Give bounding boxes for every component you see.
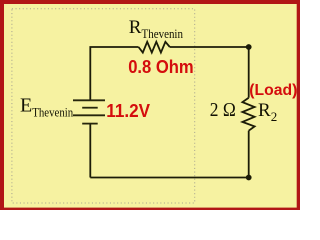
wire: bottom rail [90, 177, 248, 179]
resistor R_Thevenin [139, 42, 170, 53]
node: bottom-right junction [246, 175, 252, 181]
battery E_Thevenin [73, 100, 105, 123]
node: top-right junction [246, 44, 252, 50]
resistor R2 (load) [242, 98, 254, 131]
svg-text:11.2V: 11.2V [106, 101, 150, 121]
svg-text:0.8 Ohm: 0.8 Ohm [128, 57, 194, 77]
svg-text:2 Ω: 2 Ω [210, 99, 236, 121]
svg-text:(Load): (Load) [249, 82, 297, 99]
wire: resistor R2 down to bottom-right node [248, 131, 250, 178]
wire: battery top to resistor R_Thevenin left lead [90, 47, 138, 100]
wire: top-right node down to resistor R2 [248, 47, 250, 98]
wire: bottom rail up to battery bottom [89, 124, 91, 178]
Thevenin equivalent dashed boundary box [12, 9, 195, 203]
wire: resistor R_Thevenin right lead to top-right node [170, 46, 249, 48]
